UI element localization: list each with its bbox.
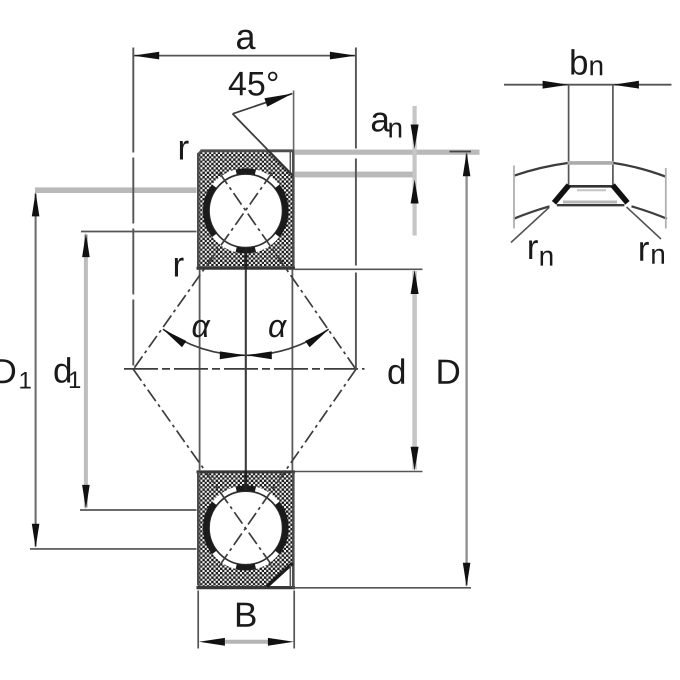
alpha arc arrow outer right [305, 329, 329, 347]
lower inner-ring split line [244, 471, 247, 491]
B right arrow [268, 638, 294, 646]
upper bearing outline: top-left chamfer [198, 151, 201, 154]
contact line upper-left to right vertex [219, 173, 356, 370]
upper inner-ring split line [244, 249, 247, 270]
D1 upper arrow [32, 192, 40, 216]
svg-text:r: r [177, 129, 189, 168]
detail groove line [557, 204, 625, 206]
lower bearing outline: bottom-left chamfer [198, 585, 201, 588]
d1 upper arrow [82, 233, 90, 257]
d extension line top (bore) [295, 268, 423, 270]
lower bearing outline: bottom edge [197, 586, 296, 589]
D extension line top [450, 151, 472, 153]
gray housing shoulder line right lower [295, 172, 415, 178]
d extension line bottom (bore) [295, 471, 423, 473]
svg-text:n: n [650, 239, 666, 270]
upper bearing outline: right face [292, 150, 295, 269]
a_n lower arrow [411, 180, 419, 204]
dimension B line (gray middle) [225, 640, 268, 644]
a_n upper arrow [411, 125, 419, 149]
alpha arc arrow outer left [163, 329, 187, 347]
alpha arc arrow centre right [246, 351, 272, 359]
upper bearing outline: top edge [201, 149, 295, 152]
r_n leader left [511, 208, 549, 243]
d1 extension line bottom [80, 509, 197, 511]
lower raceway cap bottom [236, 567, 255, 568]
detail inner arc left [514, 206, 550, 219]
upper ball [209, 174, 283, 248]
detail break line right [665, 168, 667, 229]
gray housing shoulder line right upper (OD level) [295, 150, 480, 155]
lower bearing outline: bore line [197, 470, 296, 473]
detail outer arc left [514, 163, 569, 176]
dimension a: right arrow [330, 52, 356, 60]
d1 lower arrow [82, 485, 90, 509]
d1 extension line top [81, 231, 197, 233]
detail faint gray under slot bottom [577, 189, 606, 191]
dimension B extension left [197, 591, 199, 649]
detail slot wall left [568, 85, 570, 187]
gray shaft shoulder line left [35, 187, 197, 193]
d upper arrow [411, 270, 419, 294]
svg-text:r: r [638, 230, 650, 269]
detail slot wall right [612, 85, 614, 187]
d lower arrow [411, 447, 419, 471]
upper bearing bore line [197, 267, 296, 270]
upper raceway cap bottom [236, 249, 255, 250]
upper raceway heavy arc right [277, 186, 285, 235]
svg-text:D: D [435, 353, 460, 392]
detail view: b_n dimension line [504, 84, 672, 86]
upper bearing outline: left face [197, 153, 200, 269]
detail chamfer wedge right [613, 185, 628, 203]
hatched outer+inner ring section, upper bearing [200, 152, 293, 267]
dimension a: line [133, 55, 356, 57]
svg-text:D: D [0, 352, 17, 391]
r_n leader right [627, 207, 662, 239]
dimension d1 vertical line [84, 235, 88, 508]
svg-text:b: b [569, 44, 589, 83]
svg-text:a: a [235, 16, 256, 57]
detail inner arc right [632, 206, 668, 219]
dimension a: left extension line (dashed) [132, 48, 134, 369]
slot notch inner wall, lower bearing [289, 565, 291, 587]
svg-text:n: n [539, 241, 555, 272]
svg-text:1: 1 [18, 368, 31, 395]
contact line upper-right to left vertex [133, 173, 272, 370]
dimension B extension right [293, 591, 295, 649]
45 degree leader arrow [264, 94, 292, 107]
D1 extension line bottom [30, 548, 197, 550]
upper raceway heavy arc left [206, 186, 214, 235]
lower raceway heavy arc right [277, 503, 285, 552]
45 degree extension vertical [293, 91, 295, 151]
svg-text:α: α [191, 308, 210, 344]
svg-text:n: n [387, 112, 403, 143]
detail gray band above groove line [563, 201, 617, 204]
b_n left arrow [543, 81, 569, 89]
45 degree leader line [233, 94, 293, 114]
B left arrow [199, 638, 225, 646]
contact angle arc right [246, 329, 329, 355]
dimension D1 vertical line [35, 194, 37, 547]
contact line right vertex to lower ball [219, 369, 356, 566]
detail slot top gray segment [568, 161, 614, 165]
slot notch chamfer diagonal, lower bearing [267, 563, 293, 586]
bearing centre plane vertical line [245, 249, 247, 490]
contact line left vertex to lower ball [133, 369, 272, 566]
dimension a: right extension line (dashed) [355, 48, 357, 369]
dimension D vertical line [465, 154, 467, 586]
alpha arc arrow centre left [220, 351, 246, 359]
svg-text:n: n [588, 50, 604, 81]
svg-text:1: 1 [68, 367, 81, 394]
detail slot bottom [569, 185, 613, 188]
detail break line left [513, 166, 515, 229]
svg-text:α: α [268, 308, 287, 344]
svg-text:B: B [234, 596, 257, 635]
side face lines between the two sections [199, 270, 201, 472]
upper raceway cap top [236, 171, 255, 172]
45 degree chamfer line [233, 114, 294, 176]
45 degree notch diagonal (heavier inside ring) [269, 151, 294, 176]
detail chamfer wedge left [554, 185, 569, 203]
detail outer arc right [613, 163, 666, 177]
slot notch inner wall, upper bearing [289, 151, 291, 175]
D lower arrow [463, 563, 471, 587]
D upper arrow [463, 152, 471, 176]
svg-text:45°: 45° [228, 65, 279, 103]
svg-text:r: r [527, 228, 539, 267]
svg-text:r: r [172, 246, 184, 285]
contact angle arc left [163, 329, 246, 355]
dimension a_n vertical line [413, 106, 417, 236]
lower ball [209, 491, 283, 565]
lower bearing outline: left face [197, 472, 200, 585]
hatched outer+inner ring section, lower bearing [200, 473, 293, 586]
b_n right arrow [613, 81, 639, 89]
lower bearing outline: right face [292, 472, 295, 589]
horizontal centre line [124, 368, 365, 370]
lower raceway heavy arc left [206, 503, 214, 552]
D1 lower arrow [32, 524, 40, 548]
dimension a: left arrow [133, 52, 159, 60]
dimension d vertical line [412, 271, 417, 470]
svg-text:d: d [387, 353, 407, 392]
D extension line bottom [295, 587, 471, 589]
lower raceway cap top [236, 488, 255, 489]
